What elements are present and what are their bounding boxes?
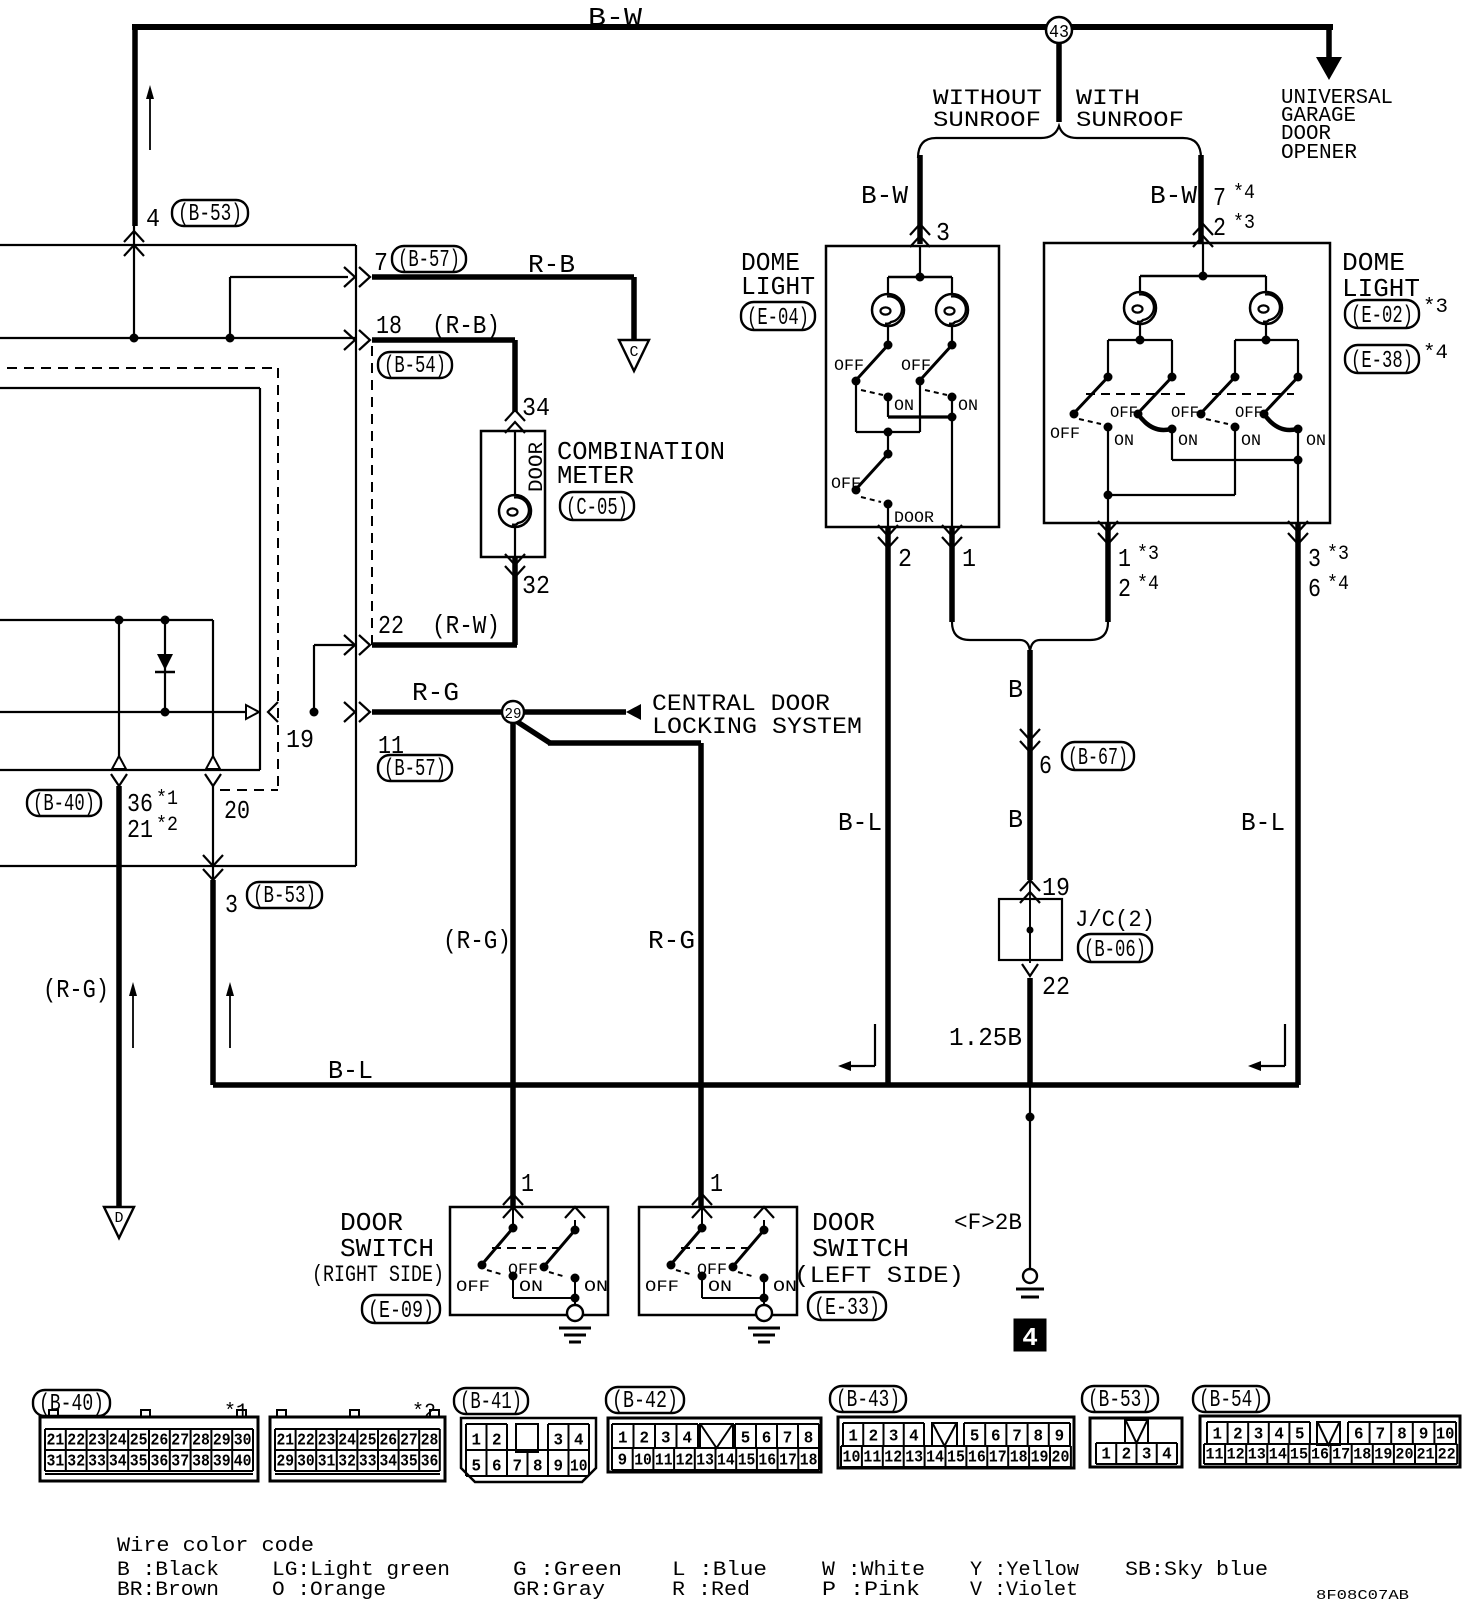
svg-text:*2: *2 xyxy=(156,814,178,837)
svg-text:13: 13 xyxy=(905,1448,923,1467)
svg-text:*4: *4 xyxy=(1327,573,1349,596)
svg-text:12: 12 xyxy=(676,1451,694,1470)
svg-text:14: 14 xyxy=(926,1448,944,1467)
svg-text:21: 21 xyxy=(47,1431,65,1450)
svg-text:1: 1 xyxy=(1101,1445,1111,1464)
svg-text:20: 20 xyxy=(1395,1446,1413,1464)
svg-text:LIGHT: LIGHT xyxy=(741,272,815,302)
svg-text:29: 29 xyxy=(277,1452,295,1471)
svg-text:1: 1 xyxy=(962,544,976,574)
svg-text:ON: ON xyxy=(958,397,978,415)
svg-text:21: 21 xyxy=(1417,1446,1435,1464)
svg-text:(R-W): (R-W) xyxy=(432,611,500,641)
svg-text:6: 6 xyxy=(492,1457,502,1476)
svg-text:*3: *3 xyxy=(1423,296,1448,319)
svg-text:9: 9 xyxy=(1055,1427,1065,1446)
svg-text:18: 18 xyxy=(376,311,402,341)
svg-text:4: 4 xyxy=(1274,1425,1284,1444)
svg-text:10: 10 xyxy=(1436,1425,1455,1444)
svg-text:32: 32 xyxy=(67,1452,85,1471)
svg-text:12: 12 xyxy=(1227,1446,1245,1464)
svg-text:1: 1 xyxy=(848,1427,858,1446)
svg-text:15: 15 xyxy=(1290,1446,1308,1464)
svg-text:15: 15 xyxy=(947,1448,965,1467)
svg-text:OFF: OFF xyxy=(901,357,931,375)
svg-text:9: 9 xyxy=(1419,1425,1429,1444)
svg-text:39: 39 xyxy=(213,1452,231,1471)
svg-text:R-B: R-B xyxy=(528,250,575,280)
svg-text:*3: *3 xyxy=(1233,212,1255,235)
svg-text:OFF: OFF xyxy=(1110,404,1138,422)
svg-text:7: 7 xyxy=(783,1429,793,1448)
svg-text:(LEFT SIDE): (LEFT SIDE) xyxy=(794,1263,964,1289)
svg-text:21: 21 xyxy=(127,815,153,845)
svg-text:B-W: B-W xyxy=(588,3,642,33)
svg-text:2: 2 xyxy=(1233,1425,1243,1444)
svg-text:5: 5 xyxy=(970,1427,980,1446)
svg-text:B: B xyxy=(1008,675,1023,705)
svg-text:9: 9 xyxy=(618,1451,628,1470)
svg-text:4: 4 xyxy=(1022,1323,1038,1353)
svg-text:C: C xyxy=(629,344,638,361)
svg-text:2: 2 xyxy=(869,1427,879,1446)
svg-text:16: 16 xyxy=(1311,1446,1329,1464)
svg-text:20: 20 xyxy=(224,796,250,826)
svg-text:(B-57): (B-57) xyxy=(398,247,460,274)
svg-text:LOCKING SYSTEM: LOCKING SYSTEM xyxy=(652,714,862,740)
svg-text:9: 9 xyxy=(554,1457,564,1476)
svg-text:DOOR: DOOR xyxy=(526,442,549,492)
svg-text:32: 32 xyxy=(338,1452,356,1471)
svg-text:(B-53): (B-53) xyxy=(178,201,242,228)
svg-text:(E-02): (E-02) xyxy=(1351,303,1413,330)
svg-text:23: 23 xyxy=(88,1431,106,1450)
svg-text:6: 6 xyxy=(1308,574,1321,604)
svg-text:2: 2 xyxy=(1122,1445,1132,1464)
svg-text:26: 26 xyxy=(151,1431,169,1450)
svg-text:2: 2 xyxy=(640,1429,650,1448)
svg-text:3: 3 xyxy=(225,890,238,920)
svg-text:11: 11 xyxy=(1206,1446,1224,1464)
svg-text:1.25B: 1.25B xyxy=(949,1023,1022,1053)
svg-text:16: 16 xyxy=(758,1451,776,1470)
svg-text:21: 21 xyxy=(277,1431,295,1450)
svg-text:7: 7 xyxy=(513,1457,523,1476)
svg-text:SUNROOF: SUNROOF xyxy=(1076,108,1184,133)
svg-text:8: 8 xyxy=(1033,1427,1043,1446)
svg-text:5: 5 xyxy=(472,1457,482,1476)
svg-text:38: 38 xyxy=(192,1452,210,1471)
svg-text:34: 34 xyxy=(522,393,550,423)
svg-text:*4: *4 xyxy=(1233,182,1255,205)
svg-text:DOOR: DOOR xyxy=(894,509,934,527)
svg-text:14: 14 xyxy=(1269,1446,1287,1464)
svg-text:B: B xyxy=(1008,805,1023,835)
svg-text:27: 27 xyxy=(400,1431,418,1450)
svg-text:4: 4 xyxy=(683,1429,693,1448)
svg-text:17: 17 xyxy=(1332,1446,1350,1464)
svg-text:33: 33 xyxy=(88,1452,106,1471)
svg-text:*4: *4 xyxy=(1137,573,1159,596)
svg-text:ON: ON xyxy=(1178,432,1198,450)
svg-text:15: 15 xyxy=(738,1451,756,1470)
svg-text:(B-57): (B-57) xyxy=(384,756,446,783)
svg-text:24: 24 xyxy=(338,1431,356,1450)
svg-text:30: 30 xyxy=(234,1431,252,1450)
svg-text:SUNROOF: SUNROOF xyxy=(933,108,1041,133)
svg-text:10: 10 xyxy=(634,1451,652,1470)
svg-text:28: 28 xyxy=(192,1431,210,1450)
svg-text:OFF: OFF xyxy=(834,357,864,375)
svg-text:(RIGHT SIDE): (RIGHT SIDE) xyxy=(312,1262,444,1288)
svg-text:22: 22 xyxy=(1438,1446,1456,1464)
svg-text:3: 3 xyxy=(1142,1445,1152,1464)
svg-text:18: 18 xyxy=(800,1451,818,1470)
svg-text:32: 32 xyxy=(522,571,550,601)
svg-text:43: 43 xyxy=(1049,23,1069,43)
svg-text:7: 7 xyxy=(1012,1427,1022,1446)
svg-text:25: 25 xyxy=(359,1431,377,1450)
svg-text:13: 13 xyxy=(696,1451,714,1470)
svg-text:(C-05): (C-05) xyxy=(566,495,628,522)
svg-text:(B-53): (B-53) xyxy=(1088,1387,1152,1414)
svg-text:SB:Sky blue: SB:Sky blue xyxy=(1125,1559,1268,1582)
svg-text:2: 2 xyxy=(898,544,912,574)
svg-text:28: 28 xyxy=(421,1431,439,1450)
svg-text:1: 1 xyxy=(618,1429,628,1448)
svg-text:R :Red: R :Red xyxy=(672,1579,750,1602)
svg-text:OFF: OFF xyxy=(645,1278,679,1296)
svg-text:36: 36 xyxy=(421,1452,439,1471)
svg-text:B-W: B-W xyxy=(861,181,908,211)
svg-text:35: 35 xyxy=(400,1452,418,1471)
svg-text:*3: *3 xyxy=(1327,543,1349,566)
svg-text:18: 18 xyxy=(1353,1446,1371,1464)
svg-text:27: 27 xyxy=(171,1431,189,1450)
svg-text:ON: ON xyxy=(1241,432,1261,450)
svg-text:2: 2 xyxy=(1118,574,1131,604)
svg-text:P :Pink: P :Pink xyxy=(822,1579,920,1602)
svg-text:(B-67): (B-67) xyxy=(1068,745,1128,772)
svg-text:1: 1 xyxy=(472,1431,482,1450)
svg-text:19: 19 xyxy=(1374,1446,1392,1464)
svg-text:31: 31 xyxy=(47,1452,65,1471)
svg-text:B-L: B-L xyxy=(838,808,882,838)
svg-text:1: 1 xyxy=(1213,1425,1223,1444)
svg-text:SWITCH: SWITCH xyxy=(812,1234,909,1264)
svg-text:(R-B): (R-B) xyxy=(432,311,500,341)
svg-text:(B-43): (B-43) xyxy=(836,1387,900,1414)
svg-text:2: 2 xyxy=(492,1431,502,1450)
svg-text:13: 13 xyxy=(1248,1446,1266,1464)
svg-text:4: 4 xyxy=(574,1431,584,1450)
svg-text:BR:Brown: BR:Brown xyxy=(117,1579,219,1602)
svg-text:24: 24 xyxy=(109,1431,127,1450)
svg-text:12: 12 xyxy=(884,1448,902,1467)
svg-text:34: 34 xyxy=(380,1452,398,1471)
svg-text:29: 29 xyxy=(505,706,522,723)
svg-text:18: 18 xyxy=(1010,1448,1028,1467)
svg-text:2: 2 xyxy=(1213,213,1226,243)
svg-text:R-G: R-G xyxy=(648,926,695,956)
svg-text:(B-06): (B-06) xyxy=(1084,937,1146,964)
svg-text:(E-09): (E-09) xyxy=(368,1298,434,1325)
svg-text:*3: *3 xyxy=(1137,543,1159,566)
svg-text:8F08C07AB: 8F08C07AB xyxy=(1316,1588,1409,1604)
svg-text:(E-33): (E-33) xyxy=(814,1295,880,1322)
svg-text:(B-41): (B-41) xyxy=(460,1389,522,1416)
svg-text:37: 37 xyxy=(171,1452,189,1471)
svg-text:26: 26 xyxy=(380,1431,398,1450)
svg-text:8: 8 xyxy=(533,1457,543,1476)
svg-text:(B-53): (B-53) xyxy=(253,883,316,910)
svg-text:19: 19 xyxy=(1031,1448,1049,1467)
svg-text:(B-54): (B-54) xyxy=(1199,1387,1263,1414)
svg-text:6: 6 xyxy=(1354,1425,1364,1444)
svg-text:ON: ON xyxy=(708,1278,732,1296)
svg-text:3: 3 xyxy=(889,1427,899,1446)
svg-text:5: 5 xyxy=(1295,1425,1305,1444)
svg-text:ON: ON xyxy=(894,397,914,415)
svg-text:4: 4 xyxy=(909,1427,919,1446)
svg-text:25: 25 xyxy=(130,1431,148,1450)
svg-text:5: 5 xyxy=(741,1429,751,1448)
svg-text:D: D xyxy=(114,1210,123,1227)
svg-text:METER: METER xyxy=(557,461,634,491)
svg-text:10: 10 xyxy=(570,1457,588,1476)
svg-text:34: 34 xyxy=(109,1452,127,1471)
svg-text:20: 20 xyxy=(1052,1448,1070,1467)
svg-text:29: 29 xyxy=(213,1431,231,1450)
svg-text:6: 6 xyxy=(762,1429,772,1448)
svg-text:OFF: OFF xyxy=(1171,404,1199,422)
svg-text:3: 3 xyxy=(554,1431,564,1450)
svg-text:17: 17 xyxy=(779,1451,797,1470)
svg-text:33: 33 xyxy=(359,1452,377,1471)
svg-text:B-W: B-W xyxy=(1150,181,1197,211)
svg-text:8: 8 xyxy=(804,1429,814,1448)
svg-text:35: 35 xyxy=(130,1452,148,1471)
svg-text:V :Violet: V :Violet xyxy=(970,1579,1078,1602)
svg-text:6: 6 xyxy=(1039,751,1052,781)
svg-text:1: 1 xyxy=(521,1169,534,1199)
svg-text:B-L: B-L xyxy=(1241,808,1285,838)
svg-text:4: 4 xyxy=(146,204,160,234)
svg-text:SWITCH: SWITCH xyxy=(340,1234,434,1264)
svg-text:OFF: OFF xyxy=(456,1278,490,1296)
svg-text:22: 22 xyxy=(378,611,404,641)
svg-text:8: 8 xyxy=(1397,1425,1407,1444)
svg-text:16: 16 xyxy=(968,1448,986,1467)
svg-text:3: 3 xyxy=(661,1429,671,1448)
svg-text:10: 10 xyxy=(843,1448,861,1467)
svg-text:7: 7 xyxy=(1213,183,1226,213)
svg-text:7: 7 xyxy=(374,248,388,278)
svg-text:(B-40): (B-40) xyxy=(33,791,95,818)
svg-text:22: 22 xyxy=(67,1431,85,1450)
svg-text:OPENER: OPENER xyxy=(1281,142,1357,165)
svg-text:(R-G): (R-G) xyxy=(443,926,511,956)
svg-text:3: 3 xyxy=(1308,544,1321,574)
svg-text:*1: *1 xyxy=(156,788,178,811)
svg-text:36: 36 xyxy=(151,1452,169,1471)
svg-text:ON: ON xyxy=(1114,432,1134,450)
svg-text:(E-04): (E-04) xyxy=(747,305,809,332)
svg-text:ON: ON xyxy=(584,1278,608,1296)
svg-text:OFF: OFF xyxy=(1050,425,1080,443)
svg-text:(R-G): (R-G) xyxy=(43,975,109,1005)
svg-text:14: 14 xyxy=(717,1451,735,1470)
svg-text:(E-38): (E-38) xyxy=(1351,348,1413,375)
svg-text:ON: ON xyxy=(519,1278,543,1296)
svg-text:ON: ON xyxy=(1306,432,1326,450)
svg-text:OFF: OFF xyxy=(831,475,861,493)
svg-text:40: 40 xyxy=(234,1452,252,1471)
svg-text:(B-54): (B-54) xyxy=(384,353,446,380)
svg-text:31: 31 xyxy=(318,1452,336,1471)
svg-text:1: 1 xyxy=(1118,544,1131,574)
svg-text:6: 6 xyxy=(991,1427,1001,1446)
svg-text:*2: *2 xyxy=(412,1401,436,1424)
svg-text:19: 19 xyxy=(286,725,314,755)
svg-text:22: 22 xyxy=(1042,972,1070,1002)
svg-text:11: 11 xyxy=(863,1448,881,1467)
svg-text:OFF: OFF xyxy=(1235,404,1263,422)
svg-text:17: 17 xyxy=(989,1448,1007,1467)
svg-text:11: 11 xyxy=(655,1451,673,1470)
svg-text:3: 3 xyxy=(1254,1425,1264,1444)
svg-text:4: 4 xyxy=(1162,1445,1172,1464)
svg-text:O :Orange: O :Orange xyxy=(272,1579,386,1602)
svg-text:3: 3 xyxy=(936,218,950,248)
svg-text:*4: *4 xyxy=(1423,342,1448,365)
svg-text:B-L: B-L xyxy=(328,1056,373,1086)
svg-text:R-G: R-G xyxy=(412,678,459,708)
svg-text:30: 30 xyxy=(297,1452,315,1471)
svg-text:22: 22 xyxy=(297,1431,315,1450)
svg-text:7: 7 xyxy=(1376,1425,1386,1444)
svg-text:GR:Gray: GR:Gray xyxy=(513,1579,605,1602)
svg-text:(B-42): (B-42) xyxy=(612,1388,678,1415)
svg-text:J/C(2): J/C(2) xyxy=(1075,907,1155,933)
svg-text:Wire color code: Wire color code xyxy=(117,1535,314,1558)
svg-text:<F>2B: <F>2B xyxy=(954,1210,1022,1236)
svg-text:23: 23 xyxy=(318,1431,336,1450)
svg-text:1: 1 xyxy=(710,1169,723,1199)
